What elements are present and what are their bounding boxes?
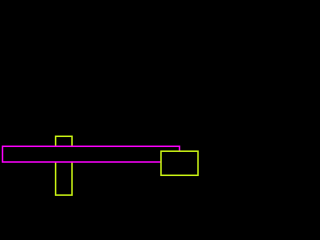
long horizontal rectangle (magenta outline), middle layer — [3, 146, 180, 162]
vertical rectangle (yellow-green outline), bottom layer — [56, 136, 72, 195]
small right rectangle (yellow-green outline), top layer — [161, 151, 198, 175]
